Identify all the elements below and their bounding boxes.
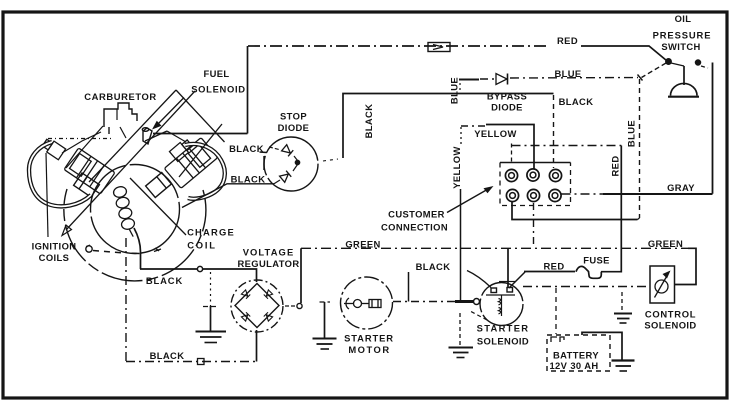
- ground starter motor tick: [320, 301, 331, 303]
- stop diode junction dot: [296, 161, 300, 165]
- stop diode circle: [264, 137, 318, 191]
- svg-text:BLACK: BLACK: [416, 261, 451, 272]
- leader black to solenoid terminal 1: [467, 271, 491, 288]
- wire BLACK riser to starter cable: [460, 189, 462, 301]
- spark plug wire right loop: [185, 144, 225, 199]
- starter motor armature: [344, 298, 381, 309]
- engine left spark plug: [41, 137, 66, 160]
- spark plug wire left loop: [29, 142, 91, 206]
- customer connection leader arrow: [447, 189, 489, 213]
- oil pressure switch contact dash right: [701, 66, 708, 68]
- wire BLUE dash to bypass diode: [480, 78, 494, 80]
- svg-text:DIODE: DIODE: [278, 122, 310, 133]
- wire BLACK from engine corner: [343, 94, 554, 159]
- ground battery bars: [612, 359, 635, 361]
- engine mount dash-dot line: [48, 138, 113, 140]
- svg-text:BLACK: BLACK: [559, 96, 594, 107]
- svg-text:PRESSURE: PRESSURE: [653, 30, 712, 41]
- starter solenoid motor terminal: [474, 299, 480, 305]
- wire GREEN from regulator terminal: [300, 248, 302, 303]
- ground center bars: [196, 331, 227, 333]
- leader fuel solenoid arrow: [157, 98, 184, 126]
- ignition coil left: [74, 173, 100, 197]
- svg-text:BLACK: BLACK: [363, 104, 374, 139]
- wire dashed stop diode to black corner riser: [323, 159, 338, 161]
- voltage regulator diode SE: [264, 312, 273, 321]
- wire BLUE corner join: [638, 218, 640, 220]
- voltage regulator diode NE: [264, 290, 273, 299]
- starter solenoid small terminal 2: [507, 288, 513, 293]
- battery terminal marks: [551, 337, 564, 342]
- ground control solenoid dashed stem: [621, 292, 623, 312]
- wire starter cable dash-dot: [393, 301, 457, 303]
- wire regulator bottom lead: [256, 330, 258, 362]
- connector symbol in RED wire: [428, 43, 450, 52]
- svg-text:FUEL: FUEL: [203, 68, 229, 79]
- wire BLUE dash-dot run to oil switch arm: [510, 77, 638, 80]
- engine crankcase outline: [64, 189, 206, 281]
- wire GREEN dash-dot main run: [301, 247, 689, 249]
- svg-text:REGULATOR: REGULATOR: [237, 258, 299, 269]
- charge coil windings: [112, 185, 137, 238]
- wire RED vertical from fuel solenoid up: [247, 46, 249, 134]
- wire kill right coil to stop diode: [182, 184, 274, 208]
- wire GREEN solid drop to starter solenoid terminal: [507, 248, 509, 287]
- wire GREEN corner to control solenoid: [675, 248, 697, 284]
- intake manifold lines: [145, 131, 167, 141]
- stop diode D1: [282, 145, 294, 157]
- svg-text:BLACK: BLACK: [146, 275, 183, 286]
- wire GRAY dash-dot from pin 6: [562, 193, 605, 195]
- control solenoid arrow: [655, 274, 669, 298]
- leader charge coil: [130, 178, 186, 235]
- starter solenoid internal contacts: [486, 282, 515, 317]
- ground center stem: [210, 306, 212, 331]
- svg-text:CONTROL: CONTROL: [645, 308, 696, 319]
- svg-text:BLACK: BLACK: [231, 174, 266, 185]
- control solenoid coil circle: [655, 280, 668, 293]
- customer connection pin 5: [527, 189, 539, 201]
- oil pressure switch arm dashed to blue wire: [642, 63, 667, 78]
- wire RED top dashed run: [248, 45, 550, 47]
- customer connection pin 2: [527, 169, 539, 181]
- wire black vertical between kill labels: [263, 156, 265, 170]
- ground starter motor bars: [313, 338, 337, 340]
- svg-text:MOTOR: MOTOR: [348, 344, 390, 355]
- bypass diode symbol: [496, 74, 507, 85]
- svg-text:RED: RED: [557, 35, 578, 46]
- control solenoid box: [650, 266, 675, 303]
- svg-text:BLUE: BLUE: [554, 68, 581, 79]
- fuel solenoid body: [142, 128, 152, 144]
- starter solenoid small terminal 1: [491, 288, 497, 293]
- wire RED solid run to oil pressure switch: [581, 46, 667, 61]
- wire YELLOW solid run into connector: [486, 125, 534, 169]
- wire RED horizontal to fuse: [524, 271, 575, 273]
- voltage regulator diode NW: [241, 290, 250, 299]
- svg-text:CHARGE: CHARGE: [187, 227, 235, 238]
- svg-text:SWITCH: SWITCH: [661, 41, 700, 52]
- oil pressure switch pivot contact: [666, 59, 671, 64]
- customer connection pin 6: [549, 189, 561, 201]
- leader line C2 from right coil: [179, 124, 222, 177]
- ground control solenoid bars: [614, 313, 632, 315]
- svg-text:CONNECTION: CONNECTION: [381, 222, 448, 233]
- svg-text:YELLOW: YELLOW: [474, 128, 517, 139]
- engine flywheel circle: [91, 165, 180, 254]
- svg-text:BLACK: BLACK: [229, 143, 264, 154]
- svg-text:YELLOW: YELLOW: [451, 146, 462, 189]
- svg-text:GREEN: GREEN: [648, 238, 683, 249]
- wire BLUE dashed riser right: [639, 79, 641, 218]
- wire YELLOW dash run: [461, 125, 486, 127]
- customer connection pin 4: [506, 189, 518, 201]
- wire RED dash-dot horizontal: [512, 145, 622, 147]
- oil pressure switch stem: [683, 66, 685, 85]
- stop diode lead lower: [274, 180, 280, 184]
- svg-text:GREEN: GREEN: [345, 238, 380, 249]
- customer connection pin 3: [549, 169, 561, 181]
- wire BLUE junction stub dotted: [459, 83, 461, 93]
- engine shoulder line left: [62, 132, 101, 153]
- svg-text:SOLENOID: SOLENOID: [644, 320, 696, 331]
- wire BLACK bottom dash-dot run: [126, 361, 257, 363]
- wire starter cable thick: [455, 300, 474, 303]
- wire dashed bolt to ground line: [93, 251, 124, 254]
- customer connection housing dashed sides: [500, 163, 571, 206]
- wire kill left coil link: [260, 151, 267, 154]
- wire RED dashed drop to pin 1: [511, 144, 513, 163]
- svg-text:CUSTOMER: CUSTOMER: [388, 209, 445, 220]
- engine shoulder line right: [167, 131, 186, 142]
- wire BLACK charge to regulator: [140, 269, 257, 282]
- wire BLACK dashed drop to connector pin: [553, 95, 555, 168]
- wire BLACK stub at starter: [408, 272, 410, 302]
- carburetor symbol: [104, 103, 137, 127]
- oil pressure switch fixed contact: [696, 60, 701, 65]
- wire RED from fuse to riser: [601, 271, 621, 273]
- svg-text:BLUE: BLUE: [626, 120, 637, 147]
- oil pressure switch arm end tick: [638, 75, 643, 81]
- connector box in black ground wire: [198, 359, 205, 365]
- svg-text:12V 30 AH: 12V 30 AH: [549, 360, 598, 371]
- starter motor circle: [341, 277, 393, 329]
- svg-text:SOLENOID: SOLENOID: [191, 83, 246, 94]
- wire battery positive dash-dot horizontal: [523, 286, 650, 288]
- svg-text:OIL: OIL: [675, 13, 692, 24]
- engine right spark plug: [169, 138, 193, 161]
- leader line to ignition plug left: [46, 153, 48, 237]
- battery outline dashed: [547, 335, 610, 371]
- svg-text:RED: RED: [610, 156, 621, 177]
- wire BLUE return horizontal: [512, 202, 638, 220]
- svg-text:STOP: STOP: [280, 111, 307, 122]
- svg-text:BLACK: BLACK: [150, 350, 185, 361]
- engine left cylinder: [64, 148, 115, 194]
- svg-text:SOLENOID: SOLENOID: [477, 336, 529, 347]
- ignition coil right: [146, 173, 172, 198]
- customer connection pin 1: [505, 169, 517, 181]
- wire RED main riser: [620, 146, 622, 273]
- engine bolt terminal left: [86, 246, 92, 252]
- voltage regulator circle: [231, 280, 283, 332]
- svg-text:CARBURETOR: CARBURETOR: [84, 91, 157, 102]
- engine bolt marks right: [154, 248, 161, 252]
- svg-text:DIODE: DIODE: [491, 101, 523, 112]
- oil pressure switch diaphragm dome: [671, 83, 698, 95]
- svg-text:VOLTAGE: VOLTAGE: [243, 246, 295, 257]
- ground dashed drop near regulator: [210, 272, 212, 306]
- fuse symbol: [576, 266, 601, 278]
- wire RED horizontal to fuel solenoid: [153, 133, 248, 135]
- customer connection housing top edge: [500, 162, 571, 164]
- bullet connector in charge wire: [197, 266, 202, 271]
- wire GRAY riser on right: [712, 63, 714, 194]
- engine carb brace line: [66, 126, 103, 168]
- svg-text:RED: RED: [544, 261, 565, 272]
- ground starter solenoid bars: [449, 347, 474, 349]
- svg-text:STARTER: STARTER: [477, 323, 530, 334]
- wire RED diagonal to solenoid terminal 2: [509, 272, 525, 288]
- wire battery positive dashed drop: [555, 288, 557, 334]
- voltage regulator bridge diamond: [235, 284, 279, 328]
- wire BLACK charge output lead: [134, 228, 141, 269]
- svg-text:COILS: COILS: [39, 252, 70, 263]
- svg-text:BYPASS: BYPASS: [487, 90, 527, 101]
- wire YELLOW dotted riser from engine: [460, 127, 462, 144]
- wire BLUE start stub: [459, 79, 479, 81]
- leader line B ignition coils: [66, 91, 195, 230]
- svg-text:COIL: COIL: [187, 240, 217, 251]
- wire GREEN dash-dot from pin 5 down: [533, 203, 535, 247]
- svg-text:BLUE: BLUE: [449, 77, 460, 104]
- leader line C to black label: [176, 90, 225, 142]
- starter solenoid circle: [480, 283, 523, 326]
- voltage regulator B+ terminal: [297, 303, 302, 308]
- leader line A to left coil: [89, 90, 176, 182]
- ground starter motor stem: [324, 302, 326, 338]
- svg-text:STARTER: STARTER: [344, 333, 394, 344]
- stop diode links: [294, 156, 298, 161]
- wire GRAY solid run: [603, 193, 713, 195]
- engine right cylinder: [164, 138, 217, 189]
- ground starter solenoid dashed stem: [459, 313, 461, 347]
- svg-text:FUSE: FUSE: [583, 255, 610, 266]
- oil pressure switch contact link: [671, 63, 684, 66]
- voltage regulator diode SW: [241, 312, 250, 321]
- stop diode lead upper: [269, 147, 279, 150]
- svg-text:IGNITION: IGNITION: [32, 240, 77, 251]
- stop diode D2: [280, 171, 292, 183]
- svg-text:GRAY: GRAY: [667, 182, 695, 193]
- wire BLACK engine ground dash-dot down: [125, 238, 127, 362]
- wire battery negative to ground: [582, 332, 622, 359]
